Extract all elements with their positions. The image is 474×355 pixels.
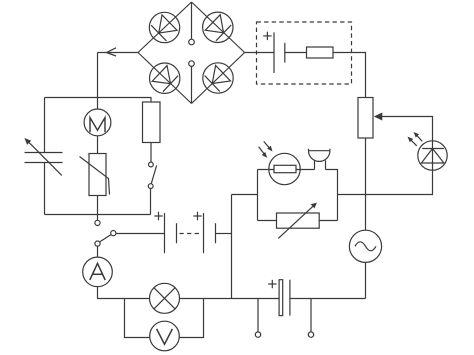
wire bridge bottom-right edge [192, 53, 245, 104]
wire bridge top-right edge [192, 2, 245, 53]
battery B2 cell 2 [204, 213, 216, 253]
wire left box left lower [44, 163, 46, 215]
terminal X1 (bridge center top) [189, 39, 195, 45]
varistor RV1 [80, 154, 110, 196]
wire AC source to bottom rail [365, 262, 367, 298]
photoresistor LDR1 [269, 153, 300, 184]
wire LED down to lower rail [338, 170, 433, 194]
terminal X5 [308, 332, 313, 337]
wire varistor to terminal [97, 196, 99, 221]
buzzer LS1 [309, 149, 330, 170]
diode D3 (bridge bottom-left) [143, 57, 186, 100]
battery B2 cell 1 plus sign [154, 212, 162, 220]
LDR1 light arrows [259, 141, 273, 157]
switch S1 [148, 162, 156, 188]
battery B2 dashed link [180, 233, 203, 235]
wire bridge bottom-left edge [138, 53, 192, 104]
wire switch S2 down to ammeter [97, 246, 99, 257]
wire buzzer to box corner [326, 170, 338, 221]
battery B1 [274, 32, 285, 73]
dashed enclosure [257, 22, 352, 84]
wire parallel box top-left [258, 169, 275, 171]
wire parallel box bottom-right [319, 220, 337, 222]
AC source G1 [349, 230, 381, 262]
wire switch down to box bottom [150, 189, 152, 215]
wire parallel box bottom-left [258, 220, 277, 222]
wire resistor to switch [150, 143, 152, 163]
wire lamp to middle node [180, 298, 232, 300]
wire LDR to buzzer [296, 169, 315, 171]
wire motor branch top [97, 98, 99, 110]
ammeter A1 [83, 257, 113, 287]
wire left box top [45, 97, 152, 99]
wire left box bottom [45, 214, 151, 216]
variable resistor R2 [277, 203, 320, 239]
current direction arrow [107, 48, 117, 56]
terminal X3 [95, 220, 100, 225]
capacitor C2 [279, 280, 290, 316]
wire ammeter to bottom rail [98, 287, 150, 299]
wire resistor branch top [150, 98, 152, 103]
voltmeter V1 [150, 321, 180, 351]
terminal X2 (bridge center bottom) [189, 61, 195, 67]
diode D2 (bridge top-right) [196, 6, 239, 49]
wire parallel box left vertical [257, 170, 259, 221]
resistor R1 [307, 47, 334, 58]
wire down from bridge to left box [97, 53, 99, 98]
capacitor C2 plus sign [268, 280, 276, 288]
wire resistor R1 to right corner [333, 53, 366, 98]
wire switch S2 to battery B2 [116, 233, 165, 235]
wire bridge center bottom stub [191, 66, 193, 103]
wire bridge top-left edge [138, 2, 192, 53]
wire voltmeter branch left [125, 299, 150, 338]
terminal stub right [310, 299, 312, 332]
battery B2 cell 1 [165, 213, 177, 253]
diode D4 (bridge bottom-right) [197, 57, 240, 100]
wire battery B1 to resistor R1 [285, 52, 307, 54]
potentiometer RP1 [358, 98, 382, 139]
LED1 [418, 141, 447, 170]
wire motor to varistor [97, 136, 99, 154]
lamp L1 [150, 283, 180, 313]
wire capacitor to AC corner [290, 298, 366, 300]
wire bottom rail to capacitor [232, 298, 280, 300]
wire bridge center top stub [191, 2, 193, 39]
motor M1 [84, 109, 111, 136]
battery B2 cell 2 plus sign [193, 212, 201, 220]
wire wiper to LED corner [380, 117, 433, 142]
wire from bridge left vertex [98, 52, 139, 54]
battery B1 plus sign [263, 32, 271, 40]
wire battery B2 to middle node [216, 233, 232, 235]
terminal stub left [257, 299, 259, 332]
resistor R3 [143, 102, 161, 143]
diode D1 (bridge top-left) [143, 6, 186, 49]
wire middle node to parallel box left [232, 194, 258, 196]
wire middle vertical node [231, 195, 233, 299]
wire left box left upper [44, 98, 46, 153]
changeover switch S2 [95, 231, 116, 247]
terminal X4 [255, 332, 260, 337]
wire potentiometer down through AC [365, 138, 367, 230]
LED1 emission arrows [408, 132, 423, 146]
wire voltmeter branch right [179, 299, 203, 338]
wire bridge right vertex to battery B1 [245, 52, 274, 54]
variable capacitor C1 [24, 138, 62, 175]
